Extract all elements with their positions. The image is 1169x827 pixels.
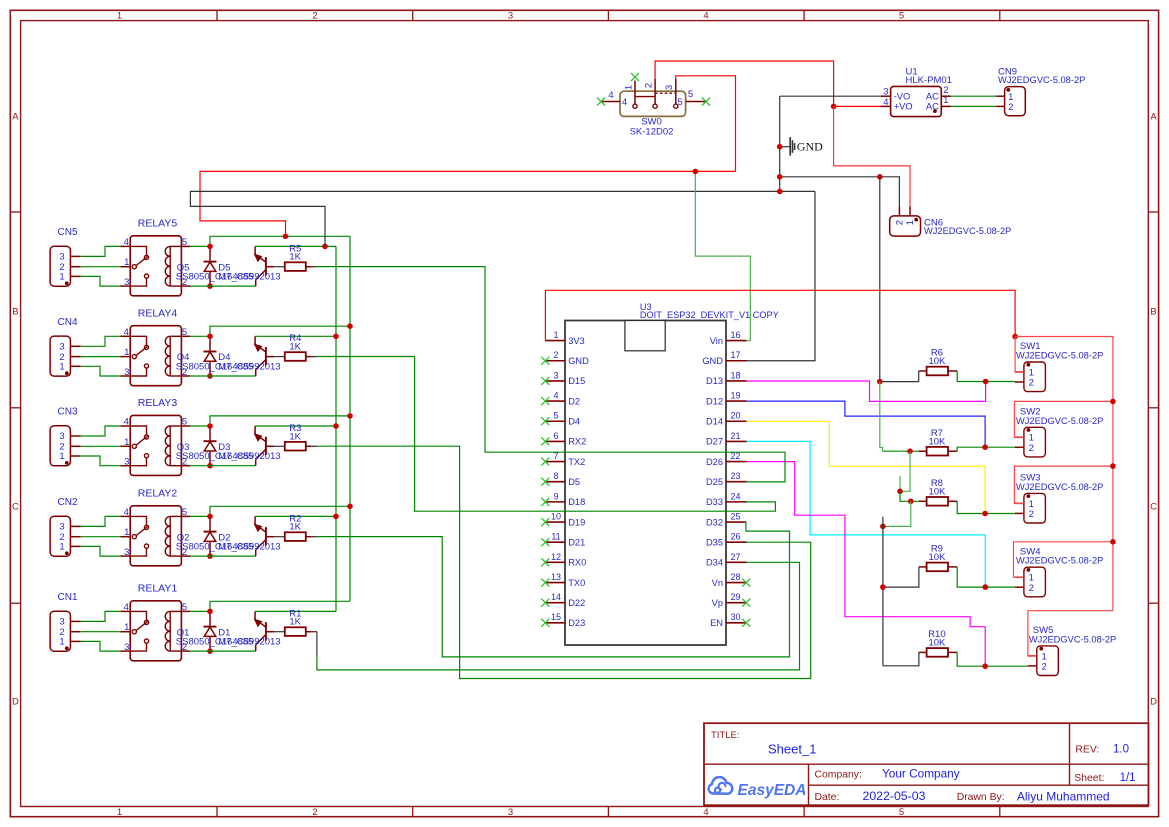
wire CN2 pin1 to RELAY2 pin3 — [81, 546, 121, 556]
svg-text:10K: 10K — [928, 552, 946, 563]
junction coil+/D3 cathode — [207, 423, 213, 429]
IC U3 DOIT_ESP32_DEVKIT_V1 body — [565, 302, 779, 645]
svg-text:+VO: +VO — [894, 102, 913, 112]
svg-text:2022-05-03: 2022-05-03 — [863, 789, 926, 803]
svg-text:Vn: Vn — [712, 578, 723, 588]
wire GND to CN6 pin2 — [780, 177, 900, 207]
junction coil+/D1 cathode — [207, 609, 213, 615]
junction GND bus / R6 — [877, 379, 883, 385]
svg-text:3: 3 — [508, 807, 513, 818]
wire R1 to D34 — [316, 632, 318, 656]
svg-text:DOIT_ESP32_DEVKIT_V1 COPY: DOIT_ESP32_DEVKIT_V1 COPY — [640, 310, 779, 320]
svg-text:Drawn By:: Drawn By: — [957, 792, 1005, 803]
ground GND flag — [780, 137, 823, 156]
relay RELAY1 — [120, 582, 190, 660]
wire U3 3V3 to +3V3 rail — [545, 290, 1015, 340]
wire R4 to D33 — [317, 357, 776, 512]
svg-text:D27: D27 — [706, 437, 723, 447]
wire RELAY3 pin2 / D3 / Q3 collector — [190, 465, 256, 467]
svg-text:10K: 10K — [928, 638, 946, 649]
svg-text:AC: AC — [926, 91, 939, 101]
svg-text:1: 1 — [59, 451, 64, 462]
svg-text:D2: D2 — [568, 396, 580, 406]
wire 3V3 bus right — [1015, 337, 1113, 656]
svg-text:23: 23 — [730, 471, 740, 481]
svg-text:Aliyu Muhammed: Aliyu Muhammed — [1017, 789, 1110, 803]
svg-text:5: 5 — [182, 507, 187, 518]
svg-text:B: B — [1150, 306, 1156, 317]
svg-text:D18: D18 — [568, 497, 585, 507]
junction 3V3 bus / SW2 — [1110, 399, 1116, 405]
svg-text:CN5: CN5 — [58, 227, 78, 238]
diode D2 — [204, 516, 217, 556]
wire coil+ node to VCC rail — [210, 416, 350, 426]
wire Q5 emitter rail — [255, 245, 336, 247]
label D3 designator and value — [218, 442, 280, 462]
svg-text:2: 2 — [553, 350, 558, 360]
svg-text:D26: D26 — [706, 457, 723, 467]
svg-text:5: 5 — [182, 237, 187, 248]
svg-text:D4: D4 — [568, 417, 580, 427]
svg-text:5: 5 — [182, 417, 187, 428]
switch SW0 — [600, 79, 705, 137]
svg-text:6: 6 — [553, 431, 558, 441]
svg-text:3: 3 — [124, 277, 129, 288]
svg-text:28: 28 — [730, 572, 740, 582]
wire GND hairpin to emitter rail — [190, 191, 815, 246]
svg-text:2: 2 — [1029, 443, 1034, 454]
connector SW1 — [1015, 341, 1103, 391]
svg-text:-VO: -VO — [894, 91, 911, 101]
connector SW5 — [1028, 625, 1116, 675]
svg-text:Date:: Date: — [815, 792, 840, 803]
svg-text:RELAY5: RELAY5 — [138, 217, 178, 229]
junction D13 net / SW1 — [983, 379, 989, 385]
svg-text:2: 2 — [312, 807, 317, 818]
svg-text:21: 21 — [730, 431, 740, 441]
svg-text:RELAY2: RELAY2 — [138, 487, 178, 499]
svg-text:1: 1 — [117, 807, 122, 818]
wire R2 output stub — [306, 536, 311, 538]
svg-text:11: 11 — [551, 532, 560, 542]
label Q5 designator and value — [176, 262, 254, 282]
wire GND bus down to R6 — [879, 177, 881, 382]
svg-text:10K: 10K — [928, 487, 946, 498]
junction emitter rail — [333, 423, 339, 429]
svg-text:TITLE:: TITLE: — [711, 730, 740, 741]
svg-text:5: 5 — [899, 11, 904, 22]
label D5 designator and value — [218, 262, 280, 282]
svg-text:3: 3 — [124, 457, 129, 468]
stub wire above R8 node — [899, 476, 901, 491]
svg-text:1: 1 — [943, 95, 948, 106]
svg-text:M7_C5992013: M7_C5992013 — [218, 272, 280, 283]
junction emitter rail to GND tap — [322, 244, 328, 250]
svg-text:26: 26 — [730, 532, 740, 542]
svg-text:Vin: Vin — [710, 336, 723, 346]
junction GND hairpin — [777, 189, 783, 195]
wire R7 node down to R8 node — [900, 451, 910, 491]
label Q4 designator and value — [176, 352, 254, 372]
svg-text:D33: D33 — [706, 497, 723, 507]
resistor R1 — [285, 608, 306, 636]
wire 3V3 to SW1 pin1 — [1015, 337, 1024, 373]
svg-text:1: 1 — [124, 437, 129, 448]
wire coil+ node to VCC rail — [210, 326, 350, 336]
svg-text:10K: 10K — [928, 356, 946, 367]
label D4 designator and value — [218, 352, 280, 372]
junction GND bus branch — [877, 174, 883, 180]
svg-text:D: D — [1150, 696, 1157, 707]
svg-text:Your Company: Your Company — [882, 767, 960, 781]
wire GND bus to R9 — [883, 567, 919, 587]
svg-text:10K: 10K — [928, 436, 946, 447]
svg-text:12: 12 — [551, 552, 561, 562]
junction D26 net / SW5 — [982, 663, 988, 669]
svg-text:D: D — [12, 696, 19, 707]
junction R8 upper node — [897, 489, 903, 495]
wire 3V3 bus to SW2 pin1 — [1014, 401, 1113, 437]
resistor R7 — [919, 428, 958, 456]
junction VCC rail — [347, 504, 353, 510]
wire CN3 pin1 to RELAY3 pin3 — [81, 456, 121, 466]
wire Q4 emitter rail — [255, 335, 336, 337]
wire R8 to SW3 pin2 — [957, 501, 1015, 513]
svg-text:2: 2 — [943, 85, 948, 96]
svg-text:3: 3 — [124, 642, 129, 653]
wire CN3 pin3 to RELAY3 pin4 — [81, 426, 121, 436]
svg-text:4: 4 — [703, 11, 708, 22]
connector CN9 — [996, 66, 1085, 115]
svg-text:RX0: RX0 — [568, 558, 586, 568]
label D1 designator and value — [218, 627, 280, 647]
svg-text:2: 2 — [644, 83, 655, 88]
wire R6 to SW1 pin2 — [957, 371, 1015, 382]
wire CN1 pin1 to RELAY1 pin3 — [81, 641, 121, 651]
wire Q1 base to R1 — [274, 631, 285, 633]
U3 right pin names — [702, 336, 723, 628]
svg-text:1: 1 — [59, 272, 64, 283]
svg-text:4: 4 — [883, 97, 888, 108]
svg-text:2: 2 — [1029, 509, 1034, 520]
svg-text:2: 2 — [1042, 662, 1047, 673]
diode D3 — [204, 426, 217, 466]
svg-text:1: 1 — [59, 542, 64, 553]
diode D1 — [204, 611, 217, 651]
svg-text:16: 16 — [730, 330, 740, 340]
wire GND bus to R10 — [883, 652, 919, 665]
wire R7 to SW2 pin2 — [957, 447, 1015, 451]
svg-text:1: 1 — [905, 220, 916, 225]
wire Q2 emitter rail — [255, 515, 336, 517]
svg-text:A: A — [12, 111, 19, 122]
svg-text:1: 1 — [59, 637, 64, 648]
svg-text:3: 3 — [124, 547, 129, 558]
junction VCC rail — [347, 323, 353, 329]
svg-text:10: 10 — [551, 511, 561, 521]
wire CN2 pin2 to RELAY2 pin1 — [81, 536, 121, 538]
svg-text:M7_C5992013: M7_C5992013 — [218, 451, 280, 462]
transistor Q2 — [255, 516, 274, 556]
connector CN6 — [890, 206, 1012, 236]
svg-text:4: 4 — [124, 507, 129, 518]
svg-text:9: 9 — [553, 491, 558, 501]
junction VCC rail — [347, 413, 353, 419]
junction GND bus / R9 — [880, 584, 886, 590]
svg-text:1K: 1K — [289, 252, 301, 263]
label D2 designator and value — [218, 532, 280, 552]
wire 3V3 bus to SW3 pin1 — [1014, 466, 1113, 503]
wire CN4 pin1 to RELAY4 pin3 — [81, 366, 121, 376]
wire RELAY1 pin5 to coil+ node — [190, 610, 210, 612]
wire Q3 emitter rail — [255, 425, 336, 427]
wire CN5 pin3 to RELAY5 pin4 — [81, 246, 121, 256]
U3 right pin stubs — [726, 341, 747, 623]
svg-text:4: 4 — [608, 90, 613, 101]
svg-text:1: 1 — [124, 347, 129, 358]
wire Q1 emitter rail — [255, 610, 336, 612]
svg-text:EN: EN — [710, 618, 723, 628]
svg-text:RELAY3: RELAY3 — [138, 397, 178, 409]
connector CN3 — [50, 407, 81, 466]
wire U1 AC to CN9 pin2 — [951, 105, 996, 107]
power module U1 — [881, 66, 952, 116]
svg-text:Sheet_1: Sheet_1 — [768, 742, 816, 757]
svg-text:D21: D21 — [568, 538, 585, 548]
svg-text:Company:: Company: — [815, 770, 862, 781]
svg-text:4: 4 — [124, 237, 129, 248]
wire CN5 pin1 to RELAY5 pin3 — [81, 276, 121, 286]
svg-text:2: 2 — [1008, 102, 1013, 113]
junction coil-/D5 anode — [207, 283, 213, 289]
svg-text:1: 1 — [117, 11, 122, 22]
svg-text:RELAY4: RELAY4 — [138, 307, 178, 319]
wire 3V3 bus to SW4 pin1 — [1014, 542, 1113, 577]
wire CN1 pin2 to RELAY1 pin1 — [81, 631, 121, 633]
wire CN4 pin2 to RELAY4 pin1 — [81, 356, 121, 358]
svg-text:EasyEDA: EasyEDA — [738, 782, 807, 799]
svg-text:SK-12D02: SK-12D02 — [630, 126, 674, 137]
wire GND net vertical — [779, 96, 781, 191]
svg-text:27: 27 — [730, 552, 740, 562]
wire R4 output stub — [306, 356, 311, 358]
junction VCC rail red feed — [283, 234, 289, 240]
resistor R9 — [919, 544, 958, 572]
svg-text:CN4: CN4 — [58, 317, 78, 328]
svg-text:1: 1 — [624, 85, 635, 90]
svg-text:5: 5 — [899, 807, 904, 818]
wire RELAY4 pin2 / D4 / Q4 collector — [190, 375, 256, 377]
wire CN4 pin3 to RELAY4 pin4 — [81, 336, 121, 346]
resistor R6 — [919, 348, 958, 376]
svg-text:1K: 1K — [289, 617, 301, 628]
wire CN3 pin2 to RELAY3 pin1 — [81, 445, 121, 447]
wire CN5 pin2 to RELAY5 pin1 — [81, 266, 121, 268]
wire Q3 base to R3 — [274, 445, 285, 447]
svg-text:17: 17 — [730, 350, 740, 360]
svg-text:19: 19 — [730, 390, 740, 400]
svg-text:3: 3 — [664, 85, 675, 90]
svg-text:1: 1 — [124, 257, 129, 268]
connector SW4 — [1015, 546, 1103, 596]
U3 left pin names — [568, 336, 589, 628]
U3 pin numbers 16-30 — [730, 330, 740, 622]
svg-text:CN1: CN1 — [58, 592, 78, 603]
wire CN1 pin3 to RELAY1 pin4 — [81, 611, 121, 621]
wire coil+ node to VCC rail — [210, 236, 350, 246]
wire D14 to SW3 net (yellow) — [747, 421, 986, 513]
junction GND flag tap — [777, 144, 783, 150]
svg-text:WJ2EDGVC-5.08-2P: WJ2EDGVC-5.08-2P — [924, 226, 1011, 236]
svg-text:D13: D13 — [706, 376, 723, 386]
junction R8 left node — [908, 499, 914, 505]
svg-text:3: 3 — [553, 370, 558, 380]
connector SW3 — [1015, 473, 1103, 523]
junction coil-/D4 anode — [207, 373, 213, 379]
diode D5 — [204, 246, 217, 286]
junction R7 left node — [907, 448, 913, 454]
svg-text:1K: 1K — [289, 431, 301, 442]
svg-text:D22: D22 — [568, 598, 585, 608]
junction GND bus top — [880, 524, 886, 530]
wire D26 to SW5 net (magenta) — [747, 462, 986, 667]
junction D14 net / SW3 — [982, 511, 988, 517]
svg-text:AC: AC — [926, 102, 939, 112]
wire R8 node down to GND bus — [883, 501, 911, 526]
svg-text:Vp: Vp — [712, 598, 723, 608]
svg-text:D14: D14 — [706, 417, 723, 427]
vertical rail VCC relays — [349, 236, 351, 601]
svg-text:D19: D19 — [568, 517, 585, 527]
svg-text:20: 20 — [730, 411, 740, 421]
wire Q2 base to R2 — [274, 536, 285, 538]
wire D27 to SW4 net (cyan) — [747, 441, 986, 587]
svg-text:2: 2 — [1029, 378, 1034, 389]
svg-text:30: 30 — [730, 612, 740, 622]
wire RELAY1 pin2 / D1 / Q1 collector — [190, 650, 256, 652]
junction coil+/D5 cathode — [207, 244, 213, 250]
svg-text:C: C — [1150, 501, 1157, 512]
junction 3V3 bus corner — [1012, 334, 1018, 340]
wire +V rail from switch to relays — [200, 171, 736, 236]
no-connect SW0 pin4 — [597, 98, 605, 106]
transistor Q4 — [255, 336, 274, 376]
svg-text:25: 25 — [730, 511, 740, 521]
transistor Q5 — [255, 246, 274, 286]
svg-text:D25: D25 — [706, 477, 723, 487]
svg-text:5: 5 — [677, 97, 682, 108]
no-connect SW0 pin1 — [631, 73, 639, 81]
junction 3V3 bus / SW4 — [1110, 539, 1116, 545]
svg-text:D12: D12 — [706, 396, 723, 406]
svg-text:1: 1 — [124, 622, 129, 633]
wire RELAY2 pin2 / D2 / Q2 collector — [190, 555, 256, 557]
wire R6 to GND bus — [880, 371, 919, 382]
junction +V rail / Vin tap — [693, 169, 699, 175]
svg-text:18: 18 — [730, 370, 740, 380]
wire GND bus to R7 (green) — [880, 382, 883, 452]
svg-text:2: 2 — [1029, 583, 1034, 594]
svg-text:D35: D35 — [706, 538, 723, 548]
resistor R4 — [285, 333, 306, 361]
svg-text:2: 2 — [895, 220, 906, 225]
wire U1 -VO to GND net — [780, 95, 881, 97]
svg-text:1.0: 1.0 — [1113, 743, 1129, 755]
connector CN5 — [50, 227, 81, 286]
transistor Q1 — [255, 611, 274, 651]
svg-text:4: 4 — [124, 417, 129, 428]
svg-text:M7_C5992013: M7_C5992013 — [218, 637, 280, 648]
svg-text:24: 24 — [730, 491, 740, 501]
svg-text:2: 2 — [312, 11, 317, 22]
svg-text:5: 5 — [182, 602, 187, 613]
wire R10 to SW5 pin2 — [957, 652, 1028, 666]
svg-text:WJ2EDGVC-5.08-2P: WJ2EDGVC-5.08-2P — [1029, 634, 1116, 644]
resistor R2 — [285, 513, 306, 541]
svg-text:1/1: 1/1 — [1120, 772, 1136, 784]
svg-text:1: 1 — [553, 330, 558, 340]
resistor R10 — [919, 629, 958, 657]
EasyEDA logo — [709, 777, 807, 799]
svg-text:WJ2EDGVC-5.08-2P: WJ2EDGVC-5.08-2P — [1016, 351, 1103, 361]
svg-text:GND: GND — [797, 140, 823, 154]
transistor Q3 — [255, 426, 274, 466]
svg-text:8: 8 — [553, 471, 558, 481]
label Q1 designator and value — [176, 627, 254, 647]
diode D4 — [204, 336, 217, 376]
junction coil-/D3 anode — [207, 463, 213, 469]
wire R3 output stub — [306, 445, 311, 447]
svg-text:D23: D23 — [568, 618, 585, 628]
title block — [704, 723, 1149, 805]
wire RELAY5 pin5 to coil+ node — [190, 245, 210, 247]
svg-text:4: 4 — [553, 390, 558, 400]
wire RELAY3 pin5 to coil+ node — [190, 425, 210, 427]
svg-text:A: A — [1150, 111, 1157, 122]
junction +VO node — [831, 104, 837, 110]
svg-text:3: 3 — [508, 11, 513, 22]
wire U3 GND pin17 — [747, 191, 816, 360]
wire +V rail tap to U3 Vin — [695, 171, 750, 340]
wire R9 to SW4 pin2 — [957, 567, 1015, 587]
wire R2 to D32 — [317, 522, 790, 657]
wire RELAY2 pin5 to coil+ node — [190, 515, 210, 517]
svg-text:WJ2EDGVC-5.08-2P: WJ2EDGVC-5.08-2P — [998, 75, 1085, 85]
wire R5 output stub — [306, 266, 311, 268]
svg-text:3V3: 3V3 — [568, 336, 585, 346]
svg-text:1: 1 — [59, 362, 64, 373]
svg-text:4: 4 — [124, 602, 129, 613]
wire SW0 pin3 to +V rail — [676, 76, 736, 172]
svg-text:15: 15 — [551, 612, 561, 622]
label Q3 designator and value — [176, 442, 254, 462]
wire RELAY5 pin2 / D5 / Q5 collector — [190, 285, 256, 287]
svg-text:14: 14 — [551, 592, 561, 602]
svg-text:4: 4 — [124, 327, 129, 338]
svg-text:M7_C5992013: M7_C5992013 — [218, 361, 280, 372]
wire GND bus lower — [882, 517, 884, 666]
svg-text:GND: GND — [702, 356, 723, 366]
U3 no-connect marks right — [742, 579, 750, 627]
wire CN2 pin3 to RELAY2 pin4 — [81, 516, 121, 526]
svg-text:C: C — [12, 501, 19, 512]
svg-text:1K: 1K — [289, 342, 301, 353]
svg-text:D32: D32 — [706, 517, 723, 527]
svg-text:5: 5 — [182, 327, 187, 338]
svg-text:RELAY1: RELAY1 — [138, 582, 178, 594]
resistor R8 — [919, 478, 958, 506]
junction coil-/D2 anode — [207, 553, 213, 559]
